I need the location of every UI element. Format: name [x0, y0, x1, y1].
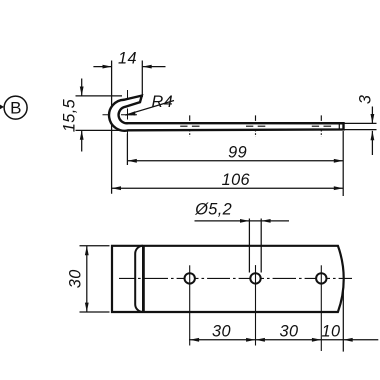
svg-text:3: 3: [357, 95, 375, 104]
svg-text:30: 30: [280, 323, 299, 341]
svg-text:B: B: [10, 99, 21, 118]
svg-text:10: 10: [322, 323, 341, 341]
svg-text:R4: R4: [152, 93, 174, 111]
svg-text:30: 30: [67, 269, 85, 288]
svg-text:Ø5,2: Ø5,2: [194, 200, 232, 218]
svg-text:106: 106: [222, 171, 251, 189]
svg-text:99: 99: [228, 144, 247, 162]
svg-text:15,5: 15,5: [61, 98, 79, 132]
svg-text:14: 14: [118, 49, 137, 67]
svg-text:30: 30: [212, 323, 231, 341]
